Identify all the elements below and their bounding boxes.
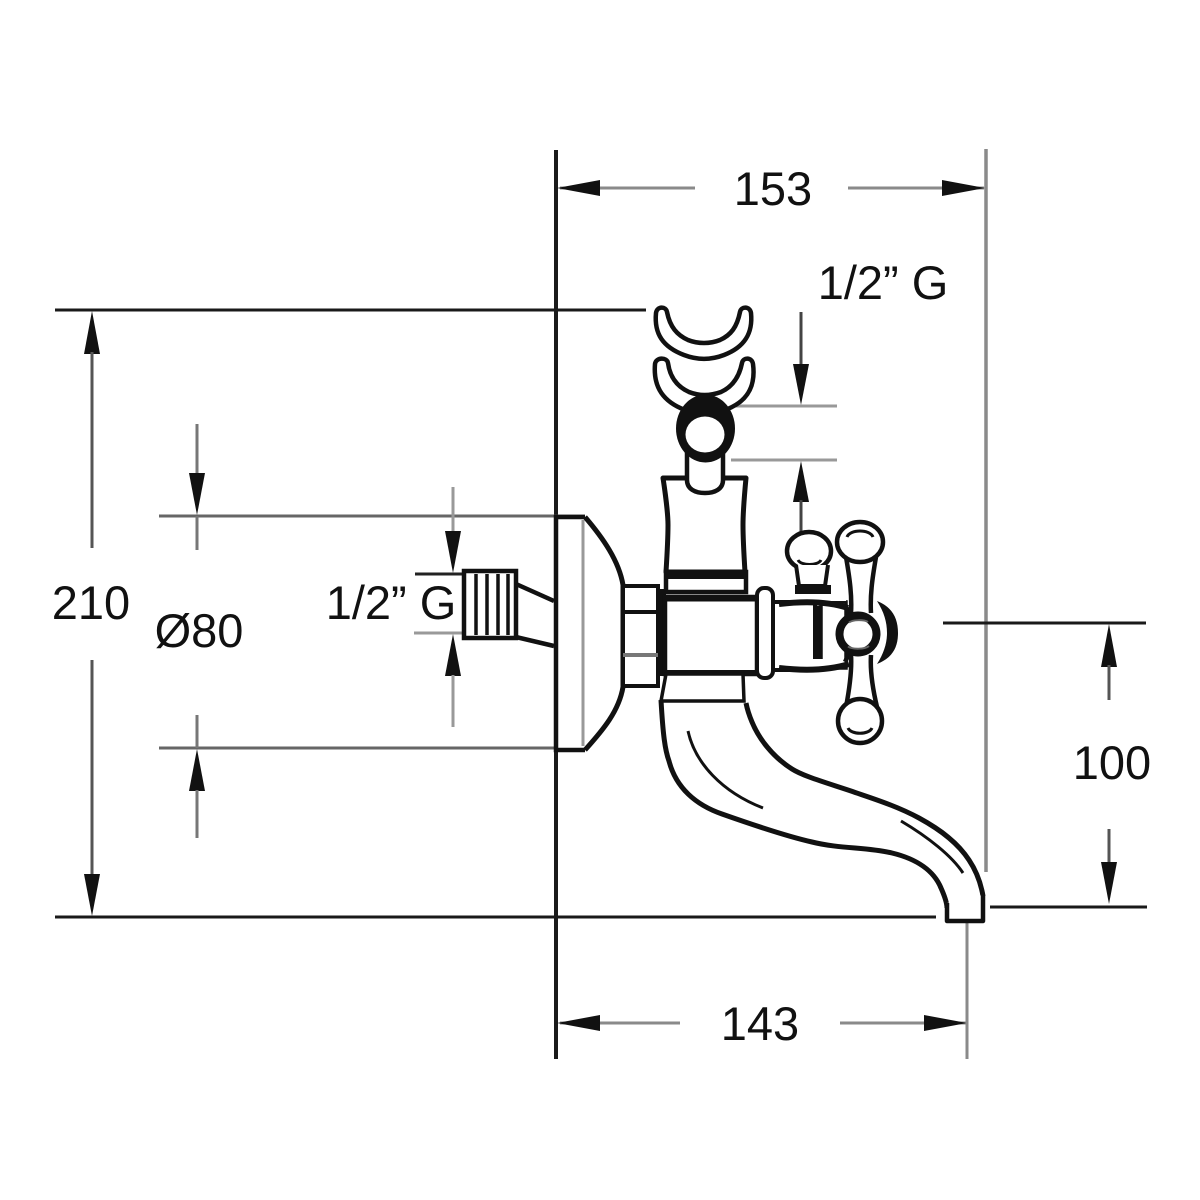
ball joint <box>676 395 735 463</box>
holder socket cone <box>663 478 746 572</box>
handle skirt bell side <box>845 605 852 662</box>
dimension O80 extension lower <box>159 747 585 750</box>
dimension 100 top extension line <box>943 622 1146 625</box>
handle skirt bell top edge <box>779 602 848 608</box>
bottom right line at spout outlet <box>990 906 1147 909</box>
handle skirt bell top white rim <box>801 593 846 601</box>
dimension 153 arrowhead left <box>557 180 600 196</box>
svg-text:210: 210 <box>52 576 130 629</box>
svg-text:1/2” G: 1/2” G <box>326 576 457 629</box>
handle skirt bell bottom white rim <box>813 659 846 668</box>
dimension O80 arrow down <box>196 424 199 478</box>
svg-text:Ø80: Ø80 <box>155 604 244 657</box>
dimension 143 line left segment <box>560 1022 680 1025</box>
body right black band <box>815 606 821 664</box>
shower-holder fork front crescent <box>655 359 754 414</box>
spout inner shading line upper <box>688 731 763 808</box>
bottom base line <box>55 916 936 919</box>
handle rear left ball neck <box>796 565 828 586</box>
spout inner outline <box>746 703 983 896</box>
dimension 100 arrow down <box>1108 829 1111 872</box>
extension line top thread lower <box>731 459 837 462</box>
top thread dimension arrow down <box>800 312 803 370</box>
bonnet <box>821 602 846 668</box>
holder neck below ball <box>687 450 723 493</box>
handle rear left collar <box>795 585 831 594</box>
flange plate <box>556 517 585 750</box>
handle vertical arm upper ball <box>837 522 883 562</box>
spout inner shading line lower <box>901 821 963 873</box>
spout outlet <box>947 895 983 921</box>
left thread extension lower <box>414 632 464 635</box>
nipple cone to flange <box>516 584 554 601</box>
handle vertical arm lower ball <box>838 699 882 743</box>
holder collar <box>666 572 746 592</box>
valve body left edge <box>658 589 666 676</box>
dimension 210 arrow up <box>84 311 100 354</box>
wall line <box>554 150 558 1059</box>
union nut between flange and body <box>623 586 658 686</box>
flange dome <box>585 517 623 750</box>
spout fill <box>661 700 983 921</box>
flange plate inner line <box>582 520 585 746</box>
svg-text:1/2” G: 1/2” G <box>818 256 949 309</box>
extension line 143 right vertical <box>966 923 969 1059</box>
handle skirt bell bottom edge <box>779 664 849 670</box>
extension line top thread upper <box>731 405 837 408</box>
dimension 143 line right segment <box>840 1022 966 1025</box>
handle hub inner shading bottom <box>848 646 869 649</box>
dimension 153 line right segment <box>848 187 984 190</box>
dimension O80 extension upper <box>159 515 585 518</box>
extension line spout tip vertical right <box>984 149 988 872</box>
spout outer outline <box>661 700 947 908</box>
body right section <box>773 602 815 670</box>
handle rear left ball <box>787 532 831 570</box>
dimension 210 arrow down <box>91 660 94 878</box>
dimension 153 arrowhead right <box>942 180 985 196</box>
handle rear arm crescent <box>877 601 898 664</box>
svg-text:153: 153 <box>734 162 812 215</box>
shower-holder fork back crescent <box>656 308 752 359</box>
svg-text:100: 100 <box>1073 736 1151 789</box>
left thread extension upper <box>415 573 464 576</box>
left thread arrow down <box>452 487 455 535</box>
valve body main <box>665 597 757 674</box>
threaded nipple <box>464 571 516 638</box>
svg-text:143: 143 <box>721 997 799 1050</box>
dimension 153 line left segment <box>560 187 695 190</box>
dimension O80 arrow up <box>196 715 199 748</box>
body ring capsule <box>757 588 773 678</box>
body lower skirt <box>661 674 744 701</box>
dimension 100 arrow up <box>1101 624 1117 667</box>
left thread arrow up <box>445 634 461 676</box>
top thread dimension arrow up <box>793 461 809 502</box>
handle hub inner shading top <box>849 620 868 622</box>
handle vertical arm <box>846 557 877 707</box>
handle hub <box>840 616 877 653</box>
dimension 210 top extension line <box>55 309 646 312</box>
